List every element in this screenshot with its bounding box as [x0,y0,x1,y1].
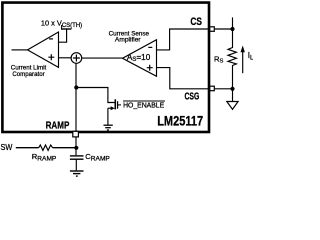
current arrow IL [242,51,244,74]
capacitor CRAMP [70,155,84,157]
comparator plus pin mark [48,54,54,60]
svg-text:RS: RS [214,54,223,64]
comparator minus pin mark [49,38,53,40]
node CS junction [230,27,234,31]
resistor RS [228,29,236,89]
tick from VCS(TH) label to bar [61,25,63,29]
op-amp U1 Current Limit Comparator [28,32,59,67]
svg-text:SW: SW [1,143,13,152]
wire RAMP pin down to node [75,138,77,156]
wire MOSFET source to ground [107,108,109,125]
amplifier minus pin mark [148,46,152,48]
wire threshold bar to comparator inverting input [59,29,67,42]
svg-text:Amplifier: Amplifier [115,37,142,44]
node CSG junction [230,87,234,91]
node RAMP RC junction [74,146,78,150]
transistor Q1 ramp discharge MOSFET [108,99,121,110]
svg-text:IL: IL [248,51,253,61]
svg-text:Comparator: Comparator [12,71,45,78]
op-amp U2 Current Sense Amplifier [123,40,157,77]
analog ground open triangle [227,102,238,110]
wire junction to MOSFET drain [76,88,114,103]
wire summing node down to RAMP pin [75,63,77,131]
wire comparator plus input to summing node [59,57,71,59]
svg-text:CRAMP: CRAMP [85,152,110,163]
signal label HO_ENABLE with overline [123,100,165,102]
amplifier plus pin mark [147,65,153,71]
node junction to MOSFET drain [74,85,78,89]
svg-text:LM25117: LM25117 [157,114,203,129]
summing junction [71,53,82,64]
svg-text:CS: CS [190,16,202,28]
svg-text:CSG: CSG [185,91,200,102]
svg-text:AS=10: AS=10 [127,53,151,63]
svg-text:RAMP: RAMP [46,121,70,132]
svg-text:RRAMP: RRAMP [32,152,57,163]
wire CS pin to sense node [215,28,233,30]
svg-text:HO_ENABLE: HO_ENABLE [123,101,164,110]
ground external [70,171,84,176]
stub to switch node [232,17,234,29]
resistor RRAMP [39,145,53,150]
wire summing node to CS amplifier output [82,57,123,59]
threshold source bar terminal [61,28,71,30]
wire RRAMP to node [53,147,77,149]
wire CRAMP to ground [75,159,77,170]
wire amplifier inverting input to CS pin [157,29,210,50]
ground internal [104,125,113,130]
comparator output wire [12,49,28,51]
wire SW to RRAMP [16,147,39,149]
IC boundary box LM25117 [2,3,209,132]
wire amplifier non-inverting input to CSG pin [157,68,210,89]
wire CSG pin to node [215,88,233,90]
wire node to analog ground [232,89,234,102]
